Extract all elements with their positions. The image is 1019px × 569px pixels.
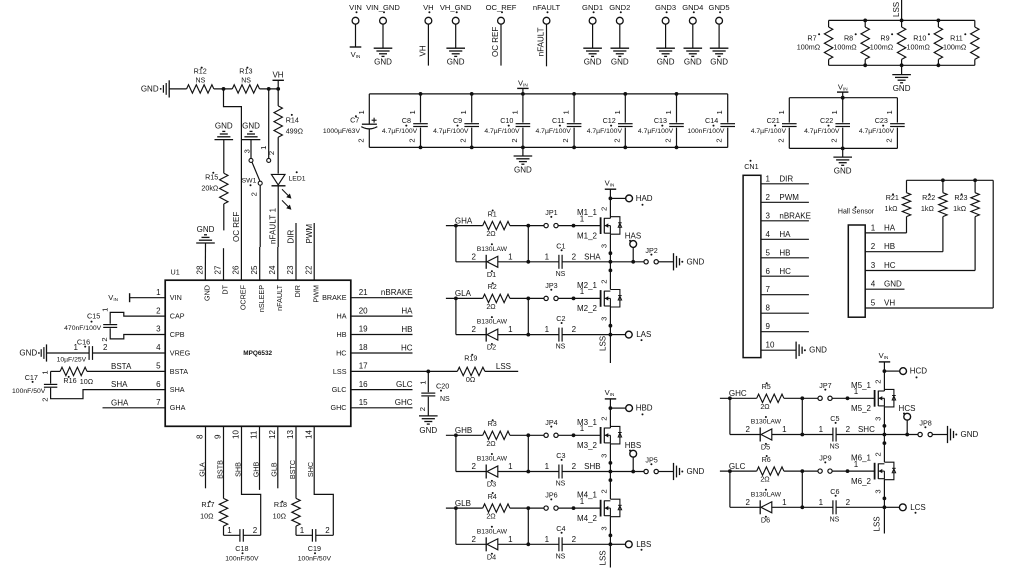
svg-text:2: 2 <box>253 526 258 535</box>
CN1 pin 1 DIR <box>761 183 809 185</box>
svg-text:GND: GND <box>19 349 37 358</box>
wire GLA pin8 stub <box>205 426 207 488</box>
wire LED1 to nFAULT pin <box>277 186 279 247</box>
wire GHB row <box>446 434 483 436</box>
svg-text:11: 11 <box>250 430 259 439</box>
wire DIR pin stub <box>295 223 297 280</box>
diode D3 B130LAW <box>485 465 487 479</box>
svg-text:2: 2 <box>561 138 570 142</box>
node M3 source dots <box>609 461 613 465</box>
svg-text:2: 2 <box>472 535 477 544</box>
node M2 gate wire dot <box>572 297 576 301</box>
svg-text:GND: GND <box>657 58 675 67</box>
jumper JP2 <box>644 260 648 264</box>
wire capacitor bank bottom rail <box>369 146 727 148</box>
svg-text:C16: C16 <box>77 337 90 346</box>
svg-text:nBRAKE: nBRAKE <box>381 288 413 297</box>
svg-text:OC REF: OC REF <box>232 212 241 242</box>
svg-text:R16: R16 <box>63 376 76 385</box>
svg-text:23: 23 <box>286 265 295 274</box>
svg-text:R8: R8 <box>844 33 853 42</box>
svg-text:GND: GND <box>893 84 911 93</box>
wire pin 16 net GLC <box>351 389 413 391</box>
Hall pin 2 HB <box>865 251 943 253</box>
svg-text:12: 12 <box>268 430 277 439</box>
svg-text:JP1: JP1 <box>545 208 557 217</box>
svg-text:GLC: GLC <box>332 385 347 394</box>
wire phase row to jumper JP5 <box>610 471 643 473</box>
resistor R8 100mOhm <box>864 20 866 27</box>
diode D4 B130LAW <box>485 537 487 551</box>
svg-text:1: 1 <box>871 223 876 232</box>
wire pin 18 net HC <box>351 352 413 354</box>
svg-text:20kΩ: 20kΩ <box>201 183 219 192</box>
vertical wire GLC to diode row <box>729 471 731 507</box>
svg-text:2Ω: 2Ω <box>486 229 496 238</box>
wire Hall pullup rail <box>907 179 994 181</box>
transistor M5 (NMOS) <box>874 390 876 407</box>
resistor R5 2Ohm <box>757 394 784 402</box>
svg-text:HBD: HBD <box>636 404 653 413</box>
svg-text:1: 1 <box>819 425 824 434</box>
svg-text:C22: C22 <box>820 116 833 125</box>
svg-text:R9: R9 <box>880 33 889 42</box>
svg-text:C2: C2 <box>556 314 565 323</box>
svg-text:0Ω: 0Ω <box>466 375 476 384</box>
ground (GND2) <box>611 47 630 49</box>
wire M3 source <box>609 444 611 472</box>
wire JP8 to ground <box>933 434 948 436</box>
wire R12 to R13 <box>214 88 233 90</box>
svg-text:VREG: VREG <box>170 348 191 357</box>
svg-text:JP8: JP8 <box>919 419 931 428</box>
svg-text:470nF/100V: 470nF/100V <box>64 325 102 332</box>
svg-text:R7: R7 <box>807 33 816 42</box>
svg-text:1: 1 <box>508 535 513 544</box>
wire capacitor bank2 top rail <box>789 97 897 99</box>
wire C4 to mosfet column <box>562 543 610 545</box>
svg-text:DIR: DIR <box>287 230 296 244</box>
svg-text:1: 1 <box>259 146 268 150</box>
svg-text:HA: HA <box>337 312 347 321</box>
svg-text:CN1: CN1 <box>744 162 758 171</box>
CN1 pin 8 <box>761 312 809 314</box>
test point LCS <box>899 504 906 511</box>
svg-text:GHC: GHC <box>729 389 747 398</box>
svg-text:DIR: DIR <box>293 285 302 297</box>
svg-text:2: 2 <box>600 416 609 420</box>
ground (C20) <box>427 397 429 416</box>
wire M3 drain <box>609 408 611 428</box>
wire pin 20 net HA <box>351 315 413 317</box>
wire GLA row <box>446 297 483 299</box>
svg-text:2: 2 <box>766 193 771 202</box>
svg-text:2: 2 <box>572 462 577 471</box>
vertical wire GLB to diode row <box>455 508 457 544</box>
svg-text:2: 2 <box>664 138 673 142</box>
capacitor C16 10uF/25V <box>88 346 90 360</box>
svg-text:100mΩ: 100mΩ <box>797 43 821 52</box>
node M5 gate wire dot <box>846 396 850 400</box>
capacitor C18 100nF/50V <box>224 534 240 536</box>
svg-text:3: 3 <box>156 325 161 334</box>
svg-text:4: 4 <box>766 230 771 239</box>
svg-text:R14: R14 <box>286 115 299 124</box>
svg-text:C9: C9 <box>453 116 462 125</box>
jumper JP3 <box>544 296 548 300</box>
svg-text:21: 21 <box>359 288 368 297</box>
node M6 gate wire dot <box>846 469 850 473</box>
ground (GND3) <box>656 47 675 49</box>
svg-text:HB: HB <box>779 248 790 257</box>
capacitor C9 4.7uF/100V <box>471 94 473 123</box>
svg-text:GHA: GHA <box>455 216 473 225</box>
svg-text:2: 2 <box>267 151 276 155</box>
svg-text:1: 1 <box>74 343 79 352</box>
svg-text:C4: C4 <box>556 524 565 533</box>
svg-text:2: 2 <box>746 425 751 434</box>
svg-text:1: 1 <box>41 370 50 374</box>
wire M6 source <box>883 480 885 508</box>
wire D5 to C5 <box>772 434 833 436</box>
svg-text:3: 3 <box>600 526 609 530</box>
vertical wire R1 out to cap row <box>527 226 529 262</box>
svg-text:HB: HB <box>337 330 347 339</box>
svg-text:GND: GND <box>687 257 705 266</box>
svg-text:M1_1: M1_1 <box>577 208 598 217</box>
resistor R17 10Ohm <box>219 498 227 526</box>
svg-text:3: 3 <box>766 211 771 220</box>
svg-text:7: 7 <box>156 398 161 407</box>
svg-text:22: 22 <box>304 265 313 274</box>
wire SW1 to nSLEEP pin <box>259 185 261 247</box>
svg-text:2Ω: 2Ω <box>486 512 496 521</box>
resistor R22 1kOhm <box>942 180 944 192</box>
wire C17 to pin6 SHA <box>51 388 166 399</box>
svg-text:2: 2 <box>715 138 724 142</box>
svg-text:1: 1 <box>819 498 824 507</box>
svg-text:25: 25 <box>250 265 259 274</box>
svg-text:VH: VH <box>419 45 428 56</box>
node GHB left junction <box>454 433 458 437</box>
svg-text:1: 1 <box>885 110 894 114</box>
svg-text:LAS: LAS <box>636 330 651 339</box>
svg-text:M6_2: M6_2 <box>851 477 872 486</box>
wire M5 source to M6 drain <box>883 435 885 463</box>
svg-text:19: 19 <box>359 325 368 334</box>
svg-text:R13: R13 <box>239 66 252 75</box>
wire HCS to phase row <box>906 420 908 434</box>
svg-text:R10: R10 <box>913 33 926 42</box>
svg-text:BRAKE: BRAKE <box>322 293 347 302</box>
wire pin17 LSS to R19 <box>351 370 458 372</box>
svg-text:2: 2 <box>100 337 109 341</box>
svg-text:4.7µF/100V: 4.7µF/100V <box>751 128 787 135</box>
CN1 pin 9 <box>761 331 809 333</box>
resistor R3 2Ohm <box>483 431 510 439</box>
transistor M1 (NMOS) <box>600 217 602 234</box>
node M6 drain dot <box>883 441 887 445</box>
svg-text:2: 2 <box>418 407 427 411</box>
Hall pin 1 HA <box>865 232 906 234</box>
svg-text:SW1: SW1 <box>242 178 257 185</box>
node M4 source dots <box>609 534 613 538</box>
jumper JP7 <box>818 396 822 400</box>
resistor R7 100mOhm <box>828 20 830 27</box>
resistor R16 10Ohm <box>51 370 61 372</box>
test point HBS <box>630 450 637 457</box>
svg-text:JP7: JP7 <box>819 381 831 390</box>
svg-text:100nF/50V: 100nF/50V <box>12 388 46 395</box>
svg-text:HC: HC <box>401 343 413 352</box>
node M1 source dots <box>609 251 613 255</box>
wire JP5 to ground <box>659 471 674 473</box>
svg-text:3: 3 <box>600 317 609 321</box>
svg-text:17: 17 <box>359 362 368 371</box>
svg-text:2: 2 <box>874 379 883 383</box>
capacitor C14 100nF/100V <box>727 94 729 123</box>
svg-text:NS: NS <box>556 344 566 351</box>
svg-text:1: 1 <box>545 252 550 261</box>
wire LSS stub down <box>609 544 611 567</box>
svg-text:2: 2 <box>250 192 259 196</box>
svg-text:9: 9 <box>214 434 223 439</box>
svg-text:C1: C1 <box>556 241 565 250</box>
svg-text:4.7µF/100V: 4.7µF/100V <box>638 128 674 135</box>
node GHC left junction <box>728 396 732 400</box>
CN1 pin 10 <box>761 349 796 351</box>
wire diode row D4 left <box>456 543 486 545</box>
svg-text:NS: NS <box>556 553 566 560</box>
svg-text:2: 2 <box>572 252 577 261</box>
svg-text:2: 2 <box>325 526 330 535</box>
wire SHB pin10 to C18 <box>242 426 261 535</box>
svg-text:VH: VH <box>423 3 434 12</box>
svg-text:26: 26 <box>232 265 241 274</box>
junction dots pullup rail <box>941 178 945 182</box>
CN1 pin 4 HA <box>761 238 809 240</box>
svg-text:13: 13 <box>286 430 295 439</box>
wire GLB row <box>446 507 483 509</box>
node diode/cap junction <box>526 333 530 337</box>
ground (JP2) <box>673 253 675 270</box>
wire M5 drain <box>883 371 885 391</box>
svg-text:SHA: SHA <box>111 380 128 389</box>
svg-text:OC REF: OC REF <box>491 27 500 57</box>
wire R2 to JP3 <box>510 297 544 299</box>
svg-text:GND: GND <box>203 285 212 301</box>
capacitor C20 NS <box>427 371 429 392</box>
svg-text:HC: HC <box>779 267 791 276</box>
wire pin 21 net nBRAKE <box>351 297 413 299</box>
svg-text:18: 18 <box>359 343 368 352</box>
connector CN1 body <box>743 175 761 357</box>
svg-text:VH_GND: VH_GND <box>440 3 472 12</box>
wire resistor bank top rail <box>829 19 975 21</box>
Hall pin 3 HC <box>865 270 975 272</box>
svg-text:M5_2: M5_2 <box>851 404 872 413</box>
svg-text:GLA: GLA <box>455 289 472 298</box>
vertical wire R6 out to cap row <box>801 471 803 507</box>
vertical wire R3 out to cap row <box>527 435 529 471</box>
svg-text:C23: C23 <box>875 116 888 125</box>
svg-text:2: 2 <box>472 325 477 334</box>
svg-text:14: 14 <box>304 430 313 439</box>
ground (capacitor bank2) <box>842 148 844 157</box>
node GLC left junction <box>728 469 732 473</box>
svg-text:2: 2 <box>356 138 365 142</box>
svg-text:GND: GND <box>419 426 437 435</box>
svg-text:1kΩ: 1kΩ <box>953 204 967 213</box>
svg-text:1: 1 <box>545 325 550 334</box>
svg-text:DT: DT <box>221 284 230 294</box>
capacitor C6 NS <box>832 500 834 514</box>
svg-text:1: 1 <box>777 110 786 114</box>
svg-text:C15: C15 <box>87 312 100 321</box>
connector Hall Sensor body <box>848 225 865 317</box>
svg-text:HCS: HCS <box>899 404 916 413</box>
svg-text:1: 1 <box>545 462 550 471</box>
svg-text:1: 1 <box>508 462 513 471</box>
wire PWM pin stub <box>313 223 315 280</box>
svg-text:1: 1 <box>766 174 771 183</box>
svg-text:SHA: SHA <box>584 252 601 261</box>
svg-text:3: 3 <box>874 489 883 493</box>
node diode/cap junction <box>526 542 530 546</box>
wire R1 to JP1 <box>510 225 544 227</box>
svg-text:2: 2 <box>40 398 49 402</box>
svg-text:1: 1 <box>227 526 232 535</box>
svg-text:LSS: LSS <box>333 367 347 376</box>
node M5 source dots <box>883 424 887 428</box>
Hall pin 4 GND <box>865 288 904 290</box>
wire drain to test point HAD <box>610 197 625 199</box>
svg-text:3: 3 <box>874 417 883 421</box>
node M1 drain junction <box>609 197 613 201</box>
LED LED1 <box>271 174 285 185</box>
svg-text:nFAULT: nFAULT <box>275 284 284 310</box>
vertical wire R2 out to cap row <box>527 298 529 334</box>
svg-text:2: 2 <box>600 207 609 211</box>
node R5 output junction <box>800 396 804 400</box>
node M1 gate wire dot <box>572 224 576 228</box>
svg-text:LSS: LSS <box>496 362 511 371</box>
svg-text:GND: GND <box>834 166 852 175</box>
wire capacitor bank2 bottom rail <box>789 147 897 149</box>
svg-text:2: 2 <box>572 535 577 544</box>
svg-text:NS: NS <box>241 78 251 85</box>
svg-text:4.7µF/100V: 4.7µF/100V <box>859 128 895 135</box>
node M5 drain junction <box>883 369 887 373</box>
capacitor C7 1000uF/63V (polarized) <box>368 94 370 124</box>
svg-text:499Ω: 499Ω <box>286 127 304 136</box>
wire GLB pin12 stub <box>277 426 279 488</box>
svg-text:2: 2 <box>874 452 883 456</box>
svg-text:GND: GND <box>215 122 233 131</box>
ground (JP8) <box>947 426 949 443</box>
wire LSS stub down <box>883 507 885 533</box>
wire ground to C16 <box>47 352 90 354</box>
svg-text:GHB: GHB <box>455 426 472 435</box>
svg-text:28: 28 <box>195 265 204 274</box>
svg-text:nFAULT: nFAULT <box>533 3 561 12</box>
svg-text:B130LAW: B130LAW <box>751 419 782 426</box>
wire LSS to resistor bank <box>901 0 903 20</box>
resistor R10 100mOhm <box>937 20 939 27</box>
svg-text:1: 1 <box>782 498 787 507</box>
svg-text:1000µF/63V: 1000µF/63V <box>323 128 361 135</box>
svg-text:GND: GND <box>884 280 902 289</box>
svg-text:1: 1 <box>100 308 109 312</box>
jumper JP9 <box>818 469 822 473</box>
svg-text:1: 1 <box>510 110 519 114</box>
wire LSS row to test point LAS <box>610 334 625 336</box>
svg-text:LCS: LCS <box>910 503 926 512</box>
svg-text:1kΩ: 1kΩ <box>885 204 899 213</box>
ground (GND1) <box>583 47 602 49</box>
wire R13 to VH node <box>260 88 279 90</box>
wire VH column <box>992 180 994 308</box>
node R6 output junction <box>800 469 804 473</box>
wire HBS to phase row <box>632 457 634 471</box>
wire M1 drain <box>609 198 611 218</box>
capacitor C4 NS <box>558 537 560 551</box>
diode D2 B130LAW <box>485 328 487 342</box>
svg-text:100nF/50V: 100nF/50V <box>298 556 332 563</box>
wire M4 source <box>609 517 611 545</box>
svg-text:C5: C5 <box>830 414 839 423</box>
svg-text:1kΩ: 1kΩ <box>921 204 935 213</box>
ground (VIN_GND) <box>374 47 393 49</box>
svg-text:20: 20 <box>359 306 368 315</box>
svg-text:100mΩ: 100mΩ <box>870 43 894 52</box>
node M4 drain dot <box>609 478 613 482</box>
wire pin 19 net HB <box>351 334 413 336</box>
svg-text:1: 1 <box>300 526 305 535</box>
svg-text:2: 2 <box>510 138 519 142</box>
wire C5 to mosfet column <box>836 434 884 436</box>
svg-text:7: 7 <box>766 285 771 294</box>
test point LAS <box>625 331 632 338</box>
svg-text:C20: C20 <box>436 382 449 391</box>
svg-text:C10: C10 <box>500 116 513 125</box>
wire VH node to SW1 pin1 <box>268 89 270 158</box>
diode D5 B130LAW <box>759 428 761 442</box>
ground (CN1 pin 10) <box>795 342 797 359</box>
svg-text:GND: GND <box>961 430 979 439</box>
wire C16 to pin4 <box>93 352 166 354</box>
svg-text:1: 1 <box>715 110 724 114</box>
test point HAD <box>626 195 633 202</box>
svg-text:GLC: GLC <box>729 462 746 471</box>
resistor R11 100mOhm <box>974 20 976 27</box>
svg-text:2: 2 <box>612 138 621 142</box>
wire diode row D1 left <box>456 261 486 263</box>
svg-text:10: 10 <box>232 430 241 439</box>
svg-text:6: 6 <box>156 380 161 389</box>
svg-text:B130LAW: B130LAW <box>477 319 508 326</box>
svg-text:GHA: GHA <box>111 398 129 407</box>
resistor R19 0Ohm <box>457 367 485 375</box>
svg-text:SHA: SHA <box>170 385 185 394</box>
svg-text:JP3: JP3 <box>545 281 557 290</box>
resistor R13 NS <box>232 85 259 93</box>
svg-text:3: 3 <box>600 454 609 458</box>
resistor R4 2Ohm <box>483 504 510 512</box>
capacitor C3 NS <box>558 465 560 479</box>
svg-text:JP6: JP6 <box>545 491 557 500</box>
capacitor C22 4.7uF/100V <box>842 98 844 123</box>
